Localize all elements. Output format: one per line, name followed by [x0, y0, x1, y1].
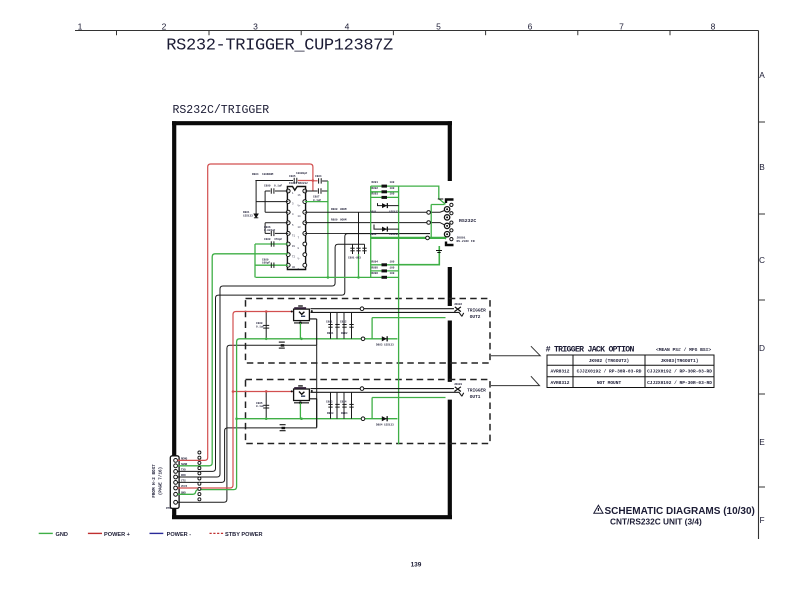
- svg-text:0OHM: 0OHM: [340, 218, 347, 221]
- svg-text:100pF: 100pF: [262, 262, 270, 265]
- svg-text:R1: R1: [292, 245, 296, 248]
- svg-text:1SS133: 1SS133: [389, 211, 399, 214]
- svg-text:OUT2: OUT2: [470, 315, 481, 320]
- svg-text:C: C: [759, 255, 765, 265]
- svg-text:D892: D892: [370, 233, 377, 236]
- svg-text:10000pF: 10000pF: [296, 172, 308, 175]
- svg-text:100: 100: [390, 267, 395, 270]
- svg-text:R883: R883: [327, 412, 334, 415]
- svg-text:CJJ2X0192 / RP-30R-03-RD: CJJ2X0192 / RP-30R-03-RD: [647, 380, 712, 386]
- svg-text:JK982 (TRGOUT2): JK982 (TRGOUT2): [589, 358, 630, 364]
- svg-text:MAX232: MAX232: [298, 182, 308, 185]
- svg-text:C882: C882: [340, 321, 347, 324]
- svg-text:13: 13: [298, 226, 302, 229]
- svg-text:R884: R884: [252, 173, 259, 176]
- svg-text:FROM H-2 BOX7: FROM H-2 BOX7: [152, 464, 157, 498]
- svg-text:GN: GN: [292, 266, 296, 269]
- svg-text:R881: R881: [327, 332, 334, 335]
- svg-text:C883: C883: [326, 400, 333, 403]
- svg-text:CNT/RS232C UNIT (3/4): CNT/RS232C UNIT (3/4): [610, 517, 702, 527]
- svg-text:1SS133: 1SS133: [243, 214, 253, 217]
- svg-text:6: 6: [528, 21, 533, 31]
- svg-text:R893: R893: [372, 192, 379, 195]
- svg-text:0.1uF: 0.1uF: [256, 405, 264, 408]
- svg-text:0.1uF: 0.1uF: [274, 185, 282, 188]
- svg-text:SCHEMATIC DIAGRAMS (10/30): SCHEMATIC DIAGRAMS (10/30): [605, 506, 755, 517]
- svg-text:TRIGGER: TRIGGER: [467, 309, 486, 314]
- svg-text:E: E: [759, 437, 765, 447]
- svg-text:139: 139: [411, 562, 422, 569]
- svg-text:16: 16: [298, 194, 302, 197]
- svg-text:T2: T2: [292, 256, 296, 259]
- svg-text:CJJ2X0192 / RP-30R-03-RD: CJJ2X0192 / RP-30R-03-RD: [647, 369, 712, 375]
- svg-text:TRIGGER: TRIGGER: [467, 389, 486, 394]
- svg-text:4: 4: [345, 21, 350, 31]
- svg-text:R894: R894: [372, 261, 379, 264]
- svg-text:RTN: RTN: [166, 507, 171, 510]
- svg-text:RS232C/TRIGGER: RS232C/TRIGGER: [173, 104, 270, 117]
- svg-text:D884: D884: [376, 423, 383, 426]
- svg-text:100: 100: [390, 192, 395, 195]
- svg-text:R891: R891: [372, 181, 379, 184]
- svg-text:POWER -: POWER -: [167, 532, 192, 538]
- svg-text:R882: R882: [341, 332, 348, 335]
- svg-text:C884: C884: [340, 400, 347, 403]
- svg-text:3: 3: [253, 21, 258, 31]
- svg-text:0.022uF: 0.022uF: [264, 229, 276, 232]
- svg-text:R892: R892: [372, 187, 379, 190]
- svg-text:T1: T1: [292, 234, 296, 237]
- svg-text:5: 5: [436, 21, 441, 31]
- svg-text:1SS133: 1SS133: [384, 423, 394, 426]
- svg-text:C885: C885: [289, 175, 296, 178]
- svg-text:470pF: 470pF: [274, 238, 282, 241]
- svg-text:JK982: JK982: [454, 303, 462, 306]
- svg-text:# TRIGGER JACK OPTION: # TRIGGER JACK OPTION: [546, 346, 635, 355]
- svg-text:100KOHM: 100KOHM: [262, 173, 274, 176]
- svg-text:C881: C881: [326, 321, 333, 324]
- svg-text:1SS133: 1SS133: [389, 233, 399, 236]
- svg-text:A: A: [759, 70, 765, 80]
- svg-text:8: 8: [711, 21, 716, 31]
- svg-text:B: B: [759, 162, 765, 172]
- svg-text:RS232C: RS232C: [459, 218, 476, 224]
- svg-text:1: 1: [78, 21, 83, 31]
- svg-text:R888: R888: [331, 208, 338, 211]
- svg-text:2: 2: [162, 21, 167, 31]
- svg-text:V-: V-: [298, 258, 302, 261]
- svg-text:IC881: IC881: [289, 182, 297, 185]
- svg-text:POWER +: POWER +: [104, 532, 131, 538]
- svg-text:RS232-TRIGGER_CUP12387Z: RS232-TRIGGER_CUP12387Z: [166, 37, 393, 56]
- svg-text:100: 100: [390, 181, 395, 184]
- svg-text:V+: V+: [298, 205, 302, 208]
- svg-text:100: 100: [390, 272, 395, 275]
- svg-text:C890: C890: [264, 185, 271, 188]
- svg-text:JK801: JK801: [457, 237, 466, 240]
- svg-text:C888: C888: [264, 238, 271, 241]
- svg-text:R889: R889: [331, 218, 338, 221]
- svg-text:OUT1: OUT1: [470, 395, 481, 400]
- svg-text:0.1uF: 0.1uF: [256, 325, 264, 328]
- svg-text:100: 100: [390, 261, 395, 264]
- svg-text:0.1uF: 0.1uF: [313, 199, 321, 202]
- svg-text:1SS133: 1SS133: [384, 344, 394, 347]
- svg-text:D: D: [759, 343, 765, 353]
- svg-text:RS-232C IN: RS-232C IN: [457, 240, 475, 243]
- svg-text:(PAGE 7/16): (PAGE 7/16): [159, 467, 164, 495]
- svg-text:C884: C884: [315, 175, 322, 178]
- svg-text:R895: R895: [372, 267, 379, 270]
- svg-text:C891-893: C891-893: [348, 257, 361, 260]
- svg-text:AVR8312: AVR8312: [551, 369, 570, 375]
- svg-text:GND: GND: [56, 532, 68, 538]
- svg-text:CJJ2X0192 / RP-30R-03-RD: CJJ2X0192 / RP-30R-03-RD: [577, 369, 642, 375]
- svg-text:JK983: JK983: [454, 383, 462, 386]
- svg-text:D883: D883: [376, 344, 383, 347]
- svg-text:F: F: [759, 515, 764, 525]
- svg-text:100: 100: [390, 187, 395, 190]
- svg-text:R896: R896: [372, 272, 379, 275]
- svg-text:AVR8312: AVR8312: [551, 380, 570, 386]
- svg-text:STBY POWER: STBY POWER: [225, 532, 263, 538]
- svg-text:14: 14: [298, 215, 302, 218]
- svg-text:JK983(TRGOUT1): JK983(TRGOUT1): [661, 358, 699, 364]
- svg-text:D891: D891: [370, 211, 377, 214]
- svg-text:R884: R884: [341, 412, 348, 415]
- svg-text:NOT MOUNT: NOT MOUNT: [597, 380, 622, 386]
- svg-text:7: 7: [619, 21, 624, 31]
- svg-text:<MEAN PS# / MFG BS#>: <MEAN PS# / MFG BS#>: [656, 347, 711, 353]
- svg-text:0OHM: 0OHM: [340, 208, 347, 211]
